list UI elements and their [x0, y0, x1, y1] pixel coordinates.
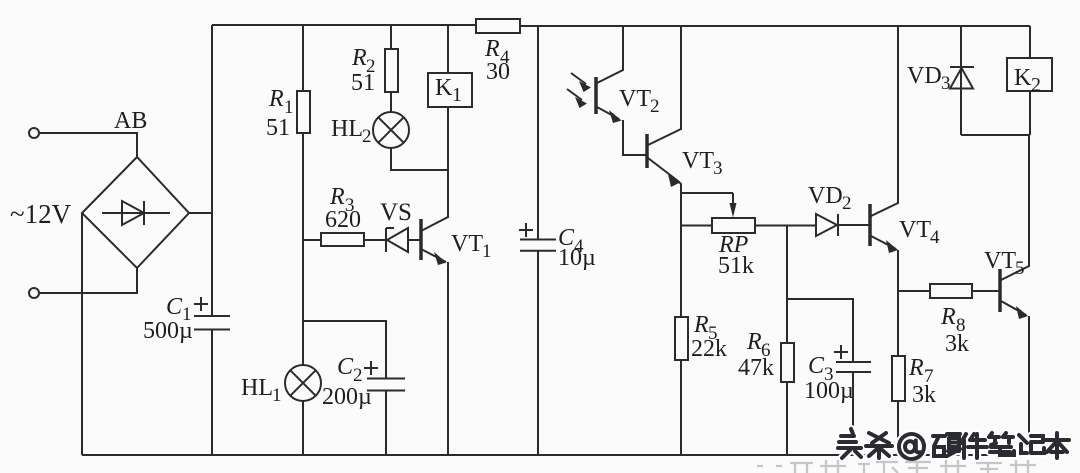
- svg-text:2: 2: [353, 365, 363, 386]
- svg-text:HL: HL: [241, 375, 273, 401]
- wire R3 to VS: [364, 239, 386, 241]
- wire R7 to bottom rail: [897, 401, 899, 455]
- wire R1 branch top: [302, 25, 304, 91]
- svg-text:K: K: [1014, 65, 1032, 91]
- svg-text:C: C: [808, 353, 825, 379]
- wire VS to VT1 base: [408, 239, 420, 241]
- capacitor C3: [804, 345, 871, 404]
- svg-text:VT: VT: [984, 248, 1016, 274]
- capacitor C2: [322, 354, 405, 410]
- svg-text:2: 2: [650, 96, 660, 117]
- wire R2 to HL2: [390, 92, 392, 112]
- wire top rail right segment: [520, 25, 1030, 27]
- lamp HL2: [331, 112, 409, 148]
- wire C3 jog: [787, 299, 853, 362]
- svg-text:3k: 3k: [945, 331, 969, 357]
- svg-text:30: 30: [486, 59, 510, 85]
- svg-text:4: 4: [930, 227, 940, 248]
- wire R8 to VT5 base: [972, 290, 999, 292]
- svg-text:VT: VT: [682, 148, 714, 174]
- diode VD3: [907, 26, 974, 135]
- svg-text:R: R: [351, 45, 367, 71]
- svg-text:VD: VD: [808, 183, 843, 209]
- wire R5 to bottom rail: [680, 360, 682, 455]
- svg-text:VS: VS: [380, 199, 412, 226]
- wire VT3 emitter down: [678, 181, 681, 317]
- zener diode VS: [380, 199, 412, 252]
- svg-text:VT: VT: [451, 231, 483, 257]
- relay K1: [428, 73, 472, 107]
- svg-text:3k: 3k: [912, 382, 936, 408]
- wire VT4 emitter down: [897, 250, 899, 356]
- svg-text:HL: HL: [331, 116, 363, 142]
- wire VT2 emitter to VT3 base: [623, 120, 646, 155]
- faint bottom watermark line: [757, 460, 1036, 473]
- wire RP right lead: [755, 225, 816, 227]
- resistor R8: [930, 284, 972, 357]
- svg-text:VD: VD: [907, 63, 942, 89]
- svg-text:1: 1: [482, 241, 492, 262]
- svg-text:VT: VT: [619, 86, 651, 112]
- transistor VT3: [647, 26, 723, 187]
- resistor R5: [675, 312, 727, 362]
- svg-text:1: 1: [272, 385, 282, 406]
- wire bottom rail: [82, 454, 1029, 456]
- svg-text:2: 2: [362, 126, 372, 147]
- wire C2 to bottom rail: [385, 391, 387, 456]
- svg-text:200µ: 200µ: [322, 384, 372, 410]
- wire R6 to bottom rail: [786, 382, 788, 455]
- svg-text:620: 620: [325, 207, 361, 233]
- wire VT1 emitter to bottom rail: [447, 262, 449, 455]
- wire AB input: [39, 133, 137, 157]
- wire C1 vertical lower: [211, 330, 213, 456]
- wire bridge right corner to C1 line: [189, 212, 212, 214]
- svg-text:VT: VT: [899, 217, 931, 243]
- wire VT5 emitter to bottom rail: [1028, 316, 1030, 455]
- bridge diode symbol: [102, 201, 170, 225]
- resistor R3: [321, 184, 364, 246]
- potentiometer RP wiper arrow: [730, 193, 737, 218]
- svg-text:51: 51: [266, 115, 290, 141]
- svg-text:2: 2: [842, 193, 852, 214]
- wire HL2 bottom to K1 line: [391, 148, 448, 170]
- wire K1 bottom to VT1 collector: [447, 107, 449, 218]
- transistor VT1: [421, 217, 492, 265]
- wire C3 to bottom rail: [852, 372, 854, 455]
- potentiometer RP: [712, 218, 755, 279]
- wire C4 to bottom rail: [537, 251, 539, 455]
- terminal input top: [29, 128, 39, 138]
- wire K2 top: [1029, 26, 1031, 58]
- svg-text:R: R: [693, 312, 709, 338]
- bridge rectifier diamond: [82, 157, 189, 268]
- terminal input bottom: [29, 288, 39, 298]
- wire C4 vertical upper: [537, 26, 539, 240]
- wire bottom input: [39, 268, 137, 293]
- wire K2 bottom: [1029, 91, 1031, 135]
- wire bridge left corner to bottom rail: [81, 213, 83, 455]
- wire wiper feed: [681, 192, 733, 194]
- resistor R7: [892, 355, 936, 408]
- svg-text:51k: 51k: [718, 253, 754, 279]
- svg-text:C: C: [166, 294, 183, 320]
- resistor R1: [266, 86, 310, 141]
- resistor R6: [738, 329, 794, 382]
- svg-text:R: R: [268, 86, 284, 112]
- transistor VT5: [984, 135, 1029, 319]
- wire R1 to R3: [303, 239, 321, 241]
- wire C2 branch: [303, 321, 386, 379]
- wire RP left lead: [681, 225, 712, 227]
- svg-text:3: 3: [941, 73, 951, 94]
- svg-text:~12V: ~12V: [10, 199, 72, 229]
- diode VD2: [808, 183, 852, 236]
- wire R1 to HL1: [302, 133, 304, 365]
- svg-text:10µ: 10µ: [558, 245, 596, 271]
- resistor R2: [351, 45, 398, 96]
- transistor VT4: [870, 26, 940, 253]
- svg-text:1: 1: [452, 84, 462, 106]
- svg-text:51: 51: [351, 70, 375, 96]
- wire R2 branch top: [390, 25, 392, 49]
- svg-text:47k: 47k: [738, 355, 774, 381]
- svg-text:R: R: [940, 304, 956, 330]
- svg-text:500µ: 500µ: [143, 318, 193, 344]
- svg-text:AB: AB: [114, 108, 147, 134]
- capacitor C4: [519, 223, 596, 271]
- svg-text:100µ: 100µ: [804, 378, 854, 404]
- wire VD2 to VT4 base: [838, 224, 869, 226]
- svg-text:5: 5: [1015, 258, 1025, 279]
- svg-text:K: K: [435, 75, 453, 101]
- svg-text:R: R: [746, 329, 762, 355]
- svg-text:R: R: [908, 355, 924, 381]
- wire VD3 K2 bottom junction: [961, 134, 1029, 136]
- wire K1 top: [447, 25, 449, 73]
- relay K2: [1007, 58, 1052, 96]
- svg-text:3: 3: [713, 158, 723, 179]
- svg-text:C: C: [337, 354, 354, 380]
- wire top rail left segment: [212, 24, 476, 26]
- wire R8 left lead: [898, 290, 930, 292]
- phototransistor VT2: [567, 26, 660, 123]
- lamp HL1: [241, 365, 321, 406]
- capacitor C1: [143, 294, 230, 344]
- svg-text:2: 2: [1031, 74, 1041, 96]
- wire R6 branch vertical upper: [786, 226, 788, 344]
- wire HL1 to bottom rail: [302, 401, 304, 455]
- wire C1 vertical upper: [211, 25, 213, 316]
- svg-text:22k: 22k: [691, 336, 727, 362]
- resistor R4: [476, 19, 520, 85]
